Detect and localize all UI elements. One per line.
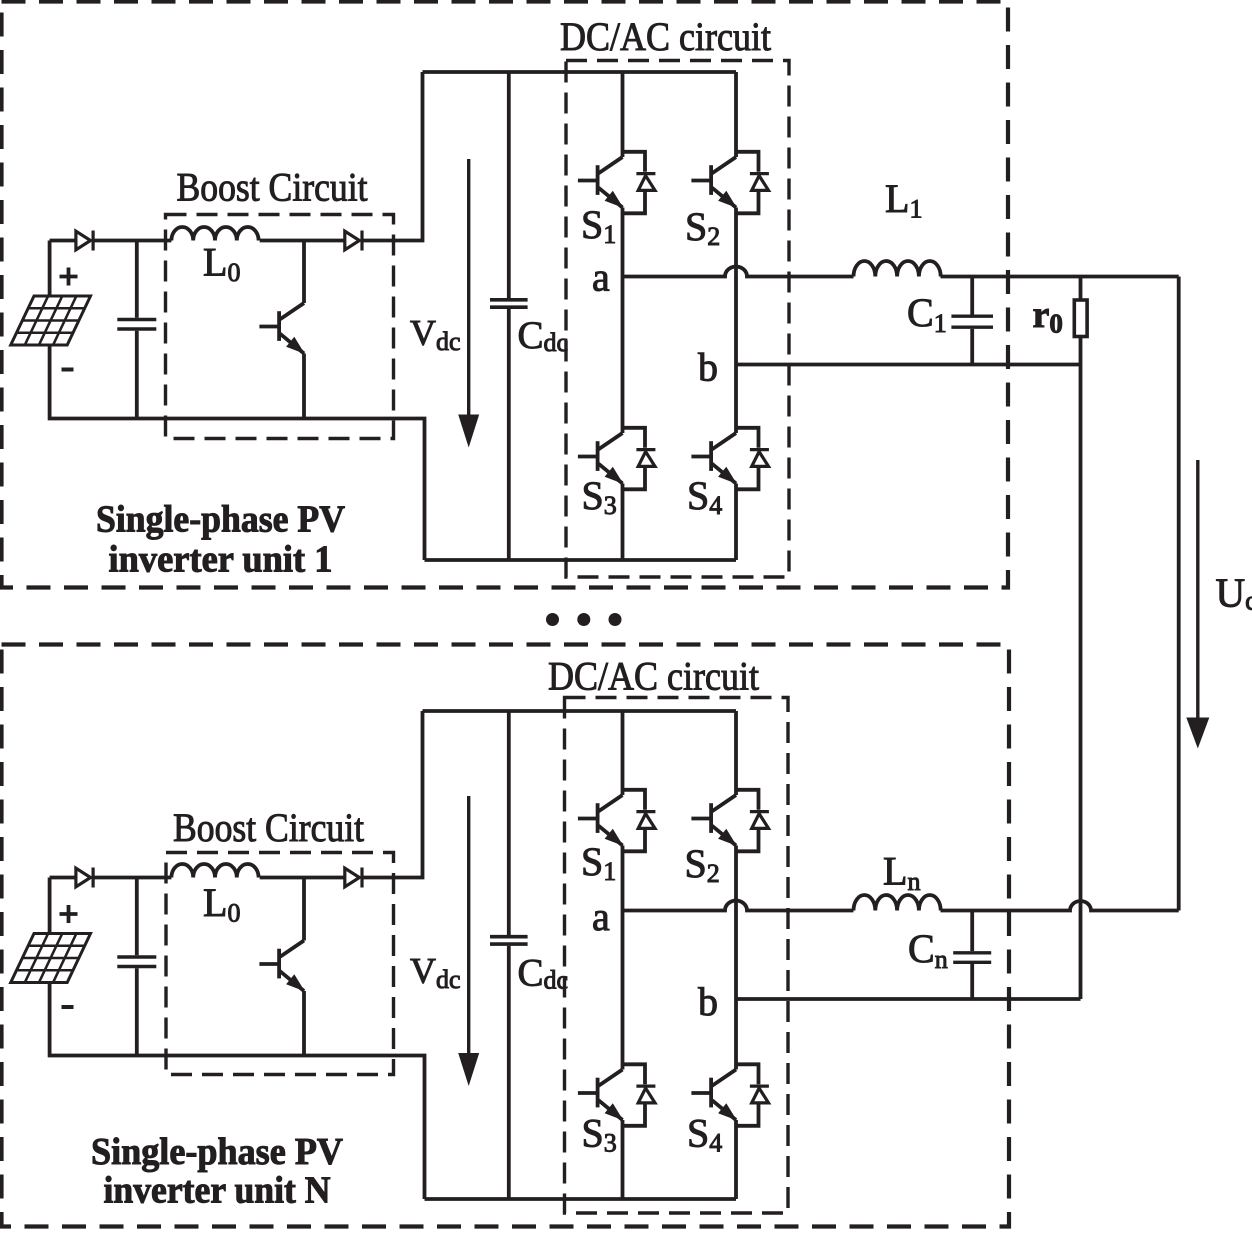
label: DC/AC circuit (unit 1): [560, 14, 771, 59]
boost transistor collector wire (unit N): [302, 878, 306, 941]
label: Single-phase PV inverter unit 1 (line 1): [96, 499, 346, 541]
svg-text:inverter unit N: inverter unit N: [104, 1170, 331, 1212]
label: Boost Circuit (unit 1): [177, 165, 368, 210]
S2 emitter to node b (unit N): [734, 846, 738, 1000]
DC/AC circuit dashed box (unit N): [565, 698, 789, 1214]
S2 emitter to node b (unit 1): [734, 208, 738, 365]
Boost Circuit dashed box (unit 1): [166, 215, 394, 439]
label b (unit N): [698, 979, 718, 1024]
label: Single-phase PV inverter unit N (line 1): [91, 1131, 344, 1173]
wire diode to input node (unit 1): [93, 239, 171, 243]
label Vdc (unit 1): [410, 313, 461, 357]
wire boost diode to DC bus (unit N): [362, 711, 423, 878]
IGBT S2 (unit 1): [691, 152, 769, 214]
filter capacitor C1: [951, 277, 993, 365]
PV positive wire (unit N): [50, 878, 76, 934]
label: Single-phase PV inverter unit 1 (line 2): [109, 539, 333, 581]
boost diode (unit 1): [345, 231, 362, 251]
label S1 (unit N): [581, 839, 616, 886]
wire boost diode to DC bus (unit 1): [362, 72, 423, 241]
label: Boost Circuit (unit N): [173, 805, 364, 850]
b-to-b vertical wire: [1079, 365, 1083, 1000]
S4 emitter to bottom bus (unit N): [734, 1120, 738, 1199]
boost diode (unit N): [345, 868, 362, 888]
Uc arrow: [1186, 460, 1209, 749]
label L1: [885, 176, 922, 224]
wire coil to boost diode (unit N): [260, 876, 345, 880]
boost transistor (unit 1): [259, 303, 304, 354]
svg-text:b: b: [698, 345, 718, 390]
right bus vertical wire: [1177, 277, 1181, 911]
S4 emitter to bottom bus (unit 1): [734, 484, 738, 561]
IGBT S1 (unit 1): [578, 152, 656, 214]
svg-text:Single-phase PV: Single-phase PV: [96, 499, 346, 541]
label S3 (unit 1): [582, 473, 617, 520]
unit 1 outer dashed box: [2, 2, 1009, 588]
node b to S4 collector (unit 1): [734, 365, 738, 434]
label Cdc (unit 1): [518, 314, 569, 357]
bottom DC bus (unit 1): [425, 558, 737, 562]
plus label (unit N): [60, 905, 78, 923]
svg-text:inverter unit 1: inverter unit 1: [109, 539, 333, 581]
label L0 (unit 1): [203, 240, 240, 288]
top DC bus (unit 1): [423, 70, 737, 74]
label a (unit N): [592, 894, 610, 939]
svg-text:DC/AC circuit: DC/AC circuit: [548, 654, 759, 699]
DC/AC circuit dashed box (unit 1): [566, 61, 789, 578]
svg-text:a: a: [592, 894, 610, 939]
boost transistor (unit N): [259, 941, 304, 992]
label C1: [907, 290, 947, 338]
IGBT S2 (unit N): [691, 790, 769, 852]
label: Single-phase PV inverter unit N (line 2): [104, 1170, 331, 1212]
label a (unit 1): [592, 255, 610, 300]
unit N outer dashed box: [2, 645, 1010, 1227]
plus label (unit 1): [60, 268, 78, 286]
boost transistor collector wire (unit 1): [302, 241, 306, 304]
S2 collector wire (unit N): [734, 711, 738, 795]
label: DC/AC circuit (unit N): [548, 654, 759, 699]
input capacitor (unit N): [117, 878, 156, 1056]
wire Ln to right bus with hopover: [941, 901, 1179, 910]
boost transistor emitter wire (unit N): [302, 991, 306, 1056]
label S1 (unit 1): [581, 202, 616, 249]
label S2 (unit 1): [685, 204, 720, 251]
Boost Circuit dashed box (unit N): [166, 853, 394, 1075]
node b to S4 collector (unit N): [734, 999, 738, 1070]
label S2 (unit N): [685, 841, 720, 888]
PV panel (unit 1): [11, 296, 91, 345]
svg-text:Single-phase PV: Single-phase PV: [91, 1131, 344, 1173]
node a output wire with hopover (unit 1): [623, 267, 854, 277]
load resistor r0: [1074, 277, 1087, 365]
node a output wire with hopovers (unit N): [623, 901, 854, 911]
wire coil to boost diode (unit 1): [260, 239, 345, 243]
label Uc: [1216, 570, 1252, 616]
label r0: [1033, 294, 1063, 339]
wire L1 to right bus: [941, 275, 1179, 279]
label L0 (unit N): [203, 880, 240, 928]
node b output wire (unit 1): [736, 363, 1081, 367]
wire diode to input node (unit N): [93, 876, 171, 880]
DC-link capacitor Cdc (unit 1): [490, 72, 528, 560]
PV positive wire (unit 1): [50, 241, 76, 297]
label Vdc (unit N): [410, 951, 461, 995]
input capacitor (unit 1): [117, 241, 156, 419]
DC-link capacitor Cdc (unit N): [490, 711, 528, 1199]
boost transistor emitter wire (unit 1): [302, 354, 306, 419]
minus label (unit 1): [62, 368, 74, 372]
top DC bus (unit N): [423, 709, 737, 713]
label S4 (unit 1): [687, 473, 722, 520]
inductor L0 coil (unit 1): [171, 227, 258, 240]
S3 emitter to bottom bus (unit 1): [621, 484, 625, 561]
svg-text:Boost Circuit: Boost Circuit: [173, 805, 364, 850]
Vdc arrow (unit 1): [458, 159, 479, 448]
input blocking diode (unit 1): [76, 231, 93, 251]
IGBT S3 (unit 1): [578, 428, 656, 490]
IGBT S3 (unit N): [578, 1064, 656, 1126]
svg-text:Boost Circuit: Boost Circuit: [177, 165, 368, 210]
label S4 (unit N): [687, 1111, 722, 1158]
node b output wire (unit N): [736, 997, 1081, 1001]
bottom DC bus (unit N): [425, 1197, 737, 1201]
Vdc arrow (unit N): [458, 796, 479, 1086]
S2 collector wire (unit 1): [734, 72, 738, 157]
filter capacitor Cn: [953, 911, 991, 1000]
input blocking diode (unit N): [76, 868, 93, 888]
label b (unit 1): [698, 345, 718, 390]
node a to S3 collector (unit 1): [621, 277, 625, 434]
svg-text:DC/AC circuit: DC/AC circuit: [560, 14, 771, 59]
label Cn: [908, 926, 948, 974]
PV negative wire (unit 1): [50, 345, 425, 560]
label Cdc (unit N): [518, 952, 569, 995]
svg-text:a: a: [592, 255, 610, 300]
minus label (unit N): [62, 1005, 74, 1009]
IGBT S4 (unit N): [691, 1064, 769, 1126]
ellipsis dots: [546, 613, 622, 626]
filter inductor Ln: [854, 895, 941, 911]
label S3 (unit N): [582, 1111, 617, 1158]
inductor L0 coil (unit N): [171, 864, 258, 878]
PV negative wire (unit N): [50, 983, 425, 1200]
label Ln: [883, 849, 920, 897]
S1 emitter to node a (unit N): [621, 846, 625, 911]
filter inductor L1: [854, 261, 941, 277]
S1 collector wire (unit 1): [621, 72, 625, 157]
IGBT S4 (unit 1): [691, 428, 769, 490]
node a to S3 collector (unit N): [621, 911, 625, 1070]
S1 collector wire (unit N): [621, 711, 625, 795]
IGBT S1 (unit N): [578, 790, 656, 852]
S3 emitter to bottom bus (unit N): [621, 1120, 625, 1199]
S1 emitter to node a (unit 1): [621, 208, 625, 277]
svg-text:b: b: [698, 979, 718, 1024]
PV panel (unit N): [11, 934, 91, 983]
